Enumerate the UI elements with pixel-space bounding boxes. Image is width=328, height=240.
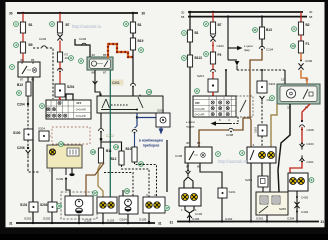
svg-text:B11: B11 <box>106 149 112 153</box>
svg-text:2: 2 <box>51 22 53 26</box>
svg-text:G301: G301 <box>256 216 264 220</box>
svg-text:30: 30 <box>9 12 13 16</box>
svg-text:9: 9 <box>70 56 72 60</box>
svg-text:6: 6 <box>140 48 142 52</box>
svg-text:C206: C206 <box>17 146 25 150</box>
svg-text:3: 3 <box>125 22 127 26</box>
svg-text:C202: C202 <box>39 37 47 41</box>
svg-text:C404: C404 <box>301 210 309 214</box>
svg-text:14: 14 <box>114 145 118 149</box>
svg-text:S101: S101 <box>20 203 28 207</box>
svg-text:30: 30 <box>20 58 24 62</box>
svg-text:S201: S201 <box>67 85 75 89</box>
svg-text:58: 58 <box>309 15 313 19</box>
svg-text:31: 31 <box>321 220 325 224</box>
svg-text:2: 2 <box>205 22 207 26</box>
svg-text:OFF: OFF <box>77 102 82 105</box>
svg-text:1: 1 <box>15 22 17 26</box>
svg-text:G104: G104 <box>120 218 128 222</box>
svg-text:S202: S202 <box>157 109 164 113</box>
svg-text:G103: G103 <box>107 219 115 223</box>
svg-text:O=O+HR: O=O+HR <box>76 109 86 112</box>
svg-text:9: 9 <box>205 52 207 56</box>
svg-text:C204: C204 <box>17 103 25 107</box>
svg-text:7: 7 <box>11 65 13 69</box>
svg-text:B7: B7 <box>66 23 70 27</box>
svg-text:B12: B12 <box>111 157 117 161</box>
svg-text:3: 3 <box>293 27 295 31</box>
svg-text:G106: G106 <box>192 217 200 221</box>
svg-text:16: 16 <box>125 189 129 193</box>
svg-text:B1: B1 <box>29 23 33 27</box>
svg-text:S203: S203 <box>40 203 48 207</box>
svg-text:31: 31 <box>170 221 174 225</box>
svg-text:B1: B1 <box>138 23 142 27</box>
svg-text:1: 1 <box>183 31 185 35</box>
svg-text:15: 15 <box>281 78 285 82</box>
svg-text:13: 13 <box>91 150 95 154</box>
svg-text:C206: C206 <box>305 59 313 63</box>
svg-text:B7: B7 <box>218 23 222 27</box>
svg-text:в комбинацию: в комбинацию <box>139 139 163 143</box>
svg-text:12: 12 <box>59 142 63 146</box>
svg-text:30: 30 <box>309 10 313 14</box>
svg-text:C202: C202 <box>106 134 114 138</box>
svg-text:S264: S264 <box>245 178 252 182</box>
svg-text:F9: F9 <box>218 53 222 57</box>
svg-text:5: 5 <box>183 56 185 60</box>
svg-text:S204: S204 <box>38 127 45 131</box>
svg-text:G304: G304 <box>287 216 295 220</box>
svg-text:B13: B13 <box>266 28 272 32</box>
svg-text:C202: C202 <box>79 37 87 41</box>
svg-text:4: 4 <box>15 43 17 47</box>
svg-text:B19: B19 <box>138 39 144 43</box>
svg-text:8: 8 <box>196 89 198 93</box>
svg-text:5: 5 <box>18 91 20 95</box>
svg-text:17: 17 <box>165 206 169 210</box>
svg-text:C403: C403 <box>307 142 315 146</box>
svg-text:9: 9 <box>41 104 43 108</box>
svg-text:приборов: приборов <box>143 144 160 148</box>
svg-text:O=O+HR: O=O+HR <box>195 108 205 111</box>
svg-text:F1: F1 <box>306 42 310 46</box>
svg-text:10: 10 <box>147 90 151 94</box>
svg-text:C201: C201 <box>112 81 120 85</box>
svg-text:C102: C102 <box>195 212 203 216</box>
svg-text:B113: B113 <box>195 56 203 60</box>
svg-text:C209: C209 <box>56 177 64 181</box>
svg-text:85: 85 <box>31 58 35 62</box>
svg-text:17: 17 <box>93 191 97 195</box>
svg-text:C105: C105 <box>175 154 183 158</box>
svg-text:6: 6 <box>311 178 313 182</box>
svg-text:B10: B10 <box>126 147 132 151</box>
svg-text:30: 30 <box>181 11 185 15</box>
svg-text:30: 30 <box>186 141 190 145</box>
svg-text:85: 85 <box>103 53 107 57</box>
svg-text:фар: фар <box>244 48 250 52</box>
svg-text:11: 11 <box>253 28 257 32</box>
svg-text:C202: C202 <box>217 44 225 48</box>
svg-text:16: 16 <box>57 204 61 208</box>
svg-text:G105: G105 <box>139 218 147 222</box>
svg-text:C402: C402 <box>301 196 309 200</box>
svg-text:8: 8 <box>80 59 82 63</box>
svg-text:30: 30 <box>142 12 146 16</box>
svg-text:B1: B1 <box>195 31 199 35</box>
svg-text:к цепи: к цепи <box>186 120 195 124</box>
svg-text:S101: S101 <box>229 190 236 194</box>
svg-text:85: 85 <box>197 141 201 145</box>
svg-text:30: 30 <box>92 53 96 57</box>
svg-text:C208: C208 <box>307 128 315 132</box>
svg-text:S201: S201 <box>197 74 204 78</box>
svg-text:31: 31 <box>9 222 13 226</box>
svg-text:http://autoruk.ru: http://autoruk.ru <box>218 159 248 164</box>
svg-text:87: 87 <box>103 71 107 75</box>
svg-text:http://autoruk.ru: http://autoruk.ru <box>72 24 102 29</box>
svg-text:C208: C208 <box>226 133 234 137</box>
svg-text:O=O+PR: O=O+PR <box>195 114 205 117</box>
svg-text:S100: S100 <box>13 131 21 135</box>
svg-text:10: 10 <box>291 44 295 48</box>
svg-text:подсв.: подсв. <box>186 125 195 129</box>
svg-text:C401: C401 <box>307 160 315 164</box>
svg-text:7: 7 <box>217 152 219 156</box>
svg-text:G202: G202 <box>43 217 51 221</box>
svg-text:8: 8 <box>271 96 273 100</box>
svg-text:G201: G201 <box>24 217 32 221</box>
svg-text:S263: S263 <box>254 126 258 133</box>
svg-text:C204: C204 <box>266 48 274 52</box>
svg-text:B9: B9 <box>29 43 33 47</box>
svg-text:S265: S265 <box>279 207 286 211</box>
svg-text:4: 4 <box>241 151 243 155</box>
svg-text:B13: B13 <box>17 83 23 87</box>
svg-text:G102: G102 <box>225 217 233 221</box>
svg-text:58: 58 <box>181 15 185 19</box>
svg-text:31: 31 <box>158 222 162 226</box>
svg-text:O=O+PR: O=O+PR <box>76 115 86 118</box>
svg-text:G102: G102 <box>84 219 92 223</box>
svg-text:87: 87 <box>20 78 24 82</box>
svg-text:B2: B2 <box>306 23 310 27</box>
svg-text:OFF: OFF <box>195 102 200 105</box>
svg-text:S301: S301 <box>269 82 276 86</box>
